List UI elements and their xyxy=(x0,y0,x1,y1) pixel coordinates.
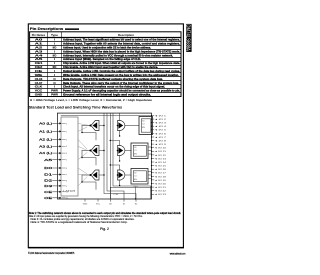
svg-text:◄ I/O 11: ◄ I/O 11 xyxy=(154,150,167,153)
junction xyxy=(81,132,82,133)
part number (vertical, right margin) xyxy=(186,24,191,52)
wires: register U3 to output rail xyxy=(148,146,152,148)
wire: G2A to bus xyxy=(99,150,104,152)
wire: G2B output to register xyxy=(125,150,131,152)
wires: register U2 to output rail xyxy=(152,121,153,123)
svg-text:REG: REG xyxy=(134,186,139,188)
table header separator xyxy=(30,37,181,39)
bottom pin S1 xyxy=(123,199,125,201)
output pin I/O 7 xyxy=(152,136,154,138)
svg-text:◄ I/O 9: ◄ I/O 9 xyxy=(154,143,167,146)
output pin I/O 11 xyxy=(152,150,154,152)
svg-text:DM74LS688A: DM74LS688A xyxy=(185,24,191,51)
input pin CE xyxy=(53,191,61,193)
U1 input tick 3 xyxy=(62,145,65,147)
bubble on G3A output xyxy=(89,174,91,176)
wire: U1 to buffer G2A input xyxy=(82,150,89,152)
junction xyxy=(81,181,82,182)
U1 input tick 0 xyxy=(62,122,65,124)
svg-text:Ground reference for all inter: Ground reference for all internal logic … xyxy=(63,93,151,97)
bus line B4 xyxy=(113,114,151,199)
svg-text:GND: GND xyxy=(35,93,43,97)
output pin I/O 18 xyxy=(152,175,154,177)
table row line xyxy=(30,45,181,47)
svg-text:◄ I/O 6: ◄ I/O 6 xyxy=(154,132,167,135)
routing lines from array U1 to row buffers xyxy=(78,123,89,185)
wire: G1B output to register xyxy=(125,125,139,127)
svg-text:◄ I/O 1: ◄ I/O 1 xyxy=(154,114,167,117)
buffer G3B (points right) xyxy=(118,170,125,180)
wire: G3B lower control xyxy=(119,180,121,186)
input latch/decoder array U1 xyxy=(61,117,78,196)
table row line xyxy=(30,84,181,86)
bus line B3 xyxy=(109,114,111,199)
svg-text:C1: C1 xyxy=(142,124,144,126)
output pin I/O 23 xyxy=(152,193,154,195)
output pin I/O 17 xyxy=(152,172,154,174)
output pin I/O 14 xyxy=(152,161,154,163)
inverting buffer G1A (points left) xyxy=(91,121,99,131)
wire: G1A to bus xyxy=(99,125,104,127)
svg-text:CE: CE xyxy=(44,190,53,194)
input pin A1 xyxy=(53,130,61,132)
svg-text:◄ I/O 18: ◄ I/O 18 xyxy=(154,175,167,178)
svg-text:◄ I/O 21: ◄ I/O 21 xyxy=(154,186,167,189)
svg-text:A0 (L): A0 (L) xyxy=(39,122,52,126)
svg-text:GND: GND xyxy=(83,204,88,206)
bubble on G2A output xyxy=(89,150,91,152)
PAGE_FRAME xyxy=(28,24,183,248)
footer xyxy=(28,24,192,256)
wire: G2B lower control xyxy=(119,156,121,162)
svg-text:D2: D2 xyxy=(44,179,53,183)
figure: logic block diagram (Fig. 2) xyxy=(39,113,167,206)
bottom pin VCC xyxy=(97,199,99,201)
output pin I/O 1 xyxy=(152,115,154,117)
svg-text:◄ I/O 16: ◄ I/O 16 xyxy=(154,168,167,171)
svg-text:Note 4: TRI-STATE is a registe: Note 4: TRI-STATE is a registered tradem… xyxy=(31,220,128,224)
output pin I/O 5 xyxy=(152,129,154,131)
svg-text:A3 (L): A3 (L) xyxy=(39,144,52,148)
output pin I/O 12 xyxy=(152,154,154,156)
svg-text:◄ I/O 17: ◄ I/O 17 xyxy=(154,172,167,175)
table row line xyxy=(30,92,181,94)
table row line xyxy=(30,88,181,90)
svg-text:C1: C1 xyxy=(134,176,136,178)
svg-text:◄ I/O 8: ◄ I/O 8 xyxy=(154,140,167,143)
U1 input tick 2 xyxy=(62,138,65,140)
table: pin description table xyxy=(30,32,181,102)
bus line B1 xyxy=(104,114,136,199)
output pin I/O 16 xyxy=(152,168,154,170)
input pin A0 xyxy=(53,122,61,124)
svg-text:◄ I/O 3: ◄ I/O 3 xyxy=(154,122,167,125)
wire: G2B enable xyxy=(110,141,119,146)
table row line xyxy=(30,61,181,63)
input pin OE xyxy=(53,197,61,199)
junction on bus B1 xyxy=(103,150,104,151)
U1 input tick 7 xyxy=(62,174,65,176)
device outline box U0 xyxy=(57,113,151,199)
svg-text:A4 (L): A4 (L) xyxy=(39,151,52,155)
output pin I/O 3 xyxy=(152,122,154,124)
input pin D2 xyxy=(53,180,61,182)
svg-text:◄ I/O 15: ◄ I/O 15 xyxy=(154,165,167,168)
table row line xyxy=(30,72,181,74)
junction on bus B1 xyxy=(103,125,104,126)
U1 input tick 11 xyxy=(62,197,65,199)
svg-text:◄ I/O 7: ◄ I/O 7 xyxy=(154,136,167,139)
svg-text:◄ I/O 22: ◄ I/O 22 xyxy=(154,190,167,193)
table row line xyxy=(30,65,181,67)
wire: U1 to buffer G3A input xyxy=(82,174,89,176)
svg-text:◄ I/O 20: ◄ I/O 20 xyxy=(154,182,167,185)
table row line xyxy=(30,57,181,59)
wire: feedback loop under G2A xyxy=(82,151,96,166)
input pin D1 xyxy=(53,174,61,176)
svg-text:◄ I/O 4: ◄ I/O 4 xyxy=(154,125,167,128)
wire: G3B enable xyxy=(110,165,119,170)
footer rule (frame bottom, heavy) xyxy=(28,247,184,249)
svg-text:A2 (L): A2 (L) xyxy=(39,138,52,142)
input pin D3 xyxy=(53,185,61,187)
svg-text:CTRL: CTRL xyxy=(113,194,119,196)
svg-text:D0: D0 xyxy=(44,166,53,170)
svg-text:Pin Names: Pin Names xyxy=(32,33,46,37)
svg-text:Fig. 2: Fig. 2 xyxy=(100,227,109,231)
input pin D0 xyxy=(53,167,61,169)
svg-text:◄ I/O 19: ◄ I/O 19 xyxy=(154,179,167,182)
svg-text:A5: A5 xyxy=(44,158,53,162)
U1 input tick 1 xyxy=(62,130,65,132)
svg-text:◄ I/O 10: ◄ I/O 10 xyxy=(154,147,167,150)
bottom pin S0 xyxy=(110,199,112,201)
wires: register U4 to output rail xyxy=(148,171,152,173)
svg-text:Pin Descriptions: Pin Descriptions xyxy=(30,27,64,31)
wire: G1B enable from top xyxy=(119,113,121,120)
output register box U3 xyxy=(131,143,148,159)
table column lines xyxy=(47,32,49,97)
bubble on G1A output xyxy=(89,125,91,127)
table row line xyxy=(30,53,181,55)
output register box U4 xyxy=(131,169,148,185)
output pin I/O 13 xyxy=(152,158,154,160)
svg-text:OE: OE xyxy=(44,196,53,200)
output pin I/O 10 xyxy=(152,147,154,149)
svg-text:Standard Test Load and Switchi: Standard Test Load and Switching Time Wa… xyxy=(29,106,123,110)
table row line xyxy=(30,76,181,78)
wire: feedback loop under G1A xyxy=(82,126,96,141)
U1 input tick 4 xyxy=(62,152,65,154)
U1 input tick 6 xyxy=(62,167,65,169)
output pin I/O 15 xyxy=(152,165,154,167)
U1 input tick 8 xyxy=(62,180,65,182)
output pin I/O 6 xyxy=(152,132,154,134)
table row line xyxy=(30,80,181,82)
wire: G3B output to register xyxy=(125,174,131,176)
svg-text:© 2004 National Semiconductor: © 2004 National Semiconductor Corporatio… xyxy=(28,251,74,255)
table row line xyxy=(30,68,181,70)
output register box U2 xyxy=(139,117,153,135)
output pin I/O 9 xyxy=(152,143,154,145)
input pin A4 xyxy=(53,152,61,154)
wire: feedback loop under G3A xyxy=(82,175,96,190)
bottom pin S2 xyxy=(135,199,137,201)
bus line B2 xyxy=(107,114,124,199)
output pin I/O 20 xyxy=(152,183,154,185)
svg-text:◄ I/O 14: ◄ I/O 14 xyxy=(154,161,167,164)
svg-text:H = HIGH Voltage Level, L = LO: H = HIGH Voltage Level, L = LOW Voltage … xyxy=(30,98,152,102)
junction xyxy=(81,157,82,158)
bottom pin GND xyxy=(84,199,86,201)
output pin I/O 22 xyxy=(152,190,154,192)
svg-text:PWR: PWR xyxy=(51,93,59,97)
junction on bus B1 xyxy=(103,174,104,175)
control block U5 (bottom right) xyxy=(111,187,152,199)
input pin A3 xyxy=(53,145,61,147)
input pin A2 xyxy=(53,138,61,140)
U1 input tick 5 xyxy=(62,159,65,161)
output pin I/O 4 xyxy=(152,125,154,127)
buffer G2B (points right) xyxy=(118,146,125,156)
title: Pin Descriptions xyxy=(30,27,79,31)
inverting buffer G2A (points left) xyxy=(91,146,99,156)
svg-text:VCC: VCC xyxy=(96,204,101,206)
svg-text:◄ I/O 23: ◄ I/O 23 xyxy=(154,193,167,196)
wire: G1B lower control xyxy=(119,131,121,137)
svg-text:www.national.com: www.national.com xyxy=(170,252,186,256)
svg-text:A1 (L): A1 (L) xyxy=(39,130,52,134)
svg-text:◄ I/O 12: ◄ I/O 12 xyxy=(154,154,167,157)
input pin A5 xyxy=(53,159,61,161)
svg-text:◄ I/O 2: ◄ I/O 2 xyxy=(154,118,167,121)
output pin I/O 2 xyxy=(152,118,154,120)
svg-text:C1: C1 xyxy=(134,150,136,152)
table row line xyxy=(30,41,181,43)
top bus wire xyxy=(61,114,152,116)
output pin I/O 21 xyxy=(152,186,154,188)
U1 input tick 9 xyxy=(62,185,65,187)
buffer G1B (points right) xyxy=(118,121,125,131)
U5 divider xyxy=(135,187,137,199)
inverting buffer G3A (points left) xyxy=(91,170,99,180)
output pin I/O 8 xyxy=(152,140,154,142)
svg-text:Description: Description xyxy=(118,33,134,37)
svg-text:Type: Type xyxy=(51,33,58,37)
svg-text:◄ I/O 5: ◄ I/O 5 xyxy=(154,129,167,132)
output pin I/O 19 xyxy=(152,179,154,181)
U1 input tick 10 xyxy=(62,191,65,193)
svg-text:◄ I/O 13: ◄ I/O 13 xyxy=(154,157,167,160)
wire: G3A to bus xyxy=(99,174,104,176)
notes block xyxy=(29,211,181,231)
svg-text:D1: D1 xyxy=(44,173,53,177)
svg-text:D3: D3 xyxy=(44,184,53,188)
wire: U1 to buffer G1A input xyxy=(82,125,89,127)
table row line xyxy=(30,49,181,51)
